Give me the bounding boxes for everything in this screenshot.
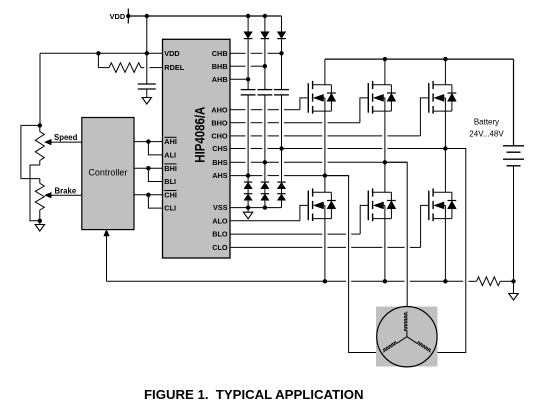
bootstrap diode DB (VDD rail down) (264, 16, 266, 32)
clamp diode pair C (VSS to CHS) (277, 181, 285, 183)
wire RDEL resistor to RDEL pin (crossover gap at cap drop) (141, 67, 144, 69)
wire phase node C (HS source to LS drain) (444, 111, 446, 192)
wire BHB pin to cap B column (230, 65, 246, 67)
junction VDD pin / RDEL resistor node (96, 51, 100, 55)
wire current-sense feedback to controller (106, 234, 108, 282)
wire phase B to motor (385, 162, 407, 311)
controller box (82, 118, 134, 230)
svg-text:BHO: BHO (211, 118, 228, 127)
junction CHS at bootstrap column (279, 146, 283, 150)
bootstrap capacitor CC (274, 89, 289, 91)
svg-text:AHB: AHB (212, 75, 228, 84)
wire phase node B (HS source to LS drain) (384, 111, 386, 192)
svg-text:CHS: CHS (212, 144, 228, 153)
svg-text:VDD: VDD (164, 49, 179, 58)
wire BLO gate line (230, 233, 322, 235)
junction VDD rail to diode D2 column (263, 14, 267, 18)
svg-text:BLO: BLO (212, 230, 228, 239)
wire diode DB to bootstrap cap CB (264, 39, 266, 90)
ground at VSS (247, 208, 249, 213)
wire controller output to AHI (134, 141, 163, 143)
wire B low-side source to ground bus (384, 219, 386, 282)
svg-text:Controller: Controller (88, 168, 127, 178)
wire battery negative lead (513, 166, 515, 281)
svg-text:VDD: VDD (110, 12, 126, 21)
wire CHB pin to cap C column (230, 52, 246, 54)
junction VDD rail to diode D1 column (246, 14, 250, 18)
svg-text:CLO: CLO (212, 243, 228, 252)
wire BHS node down to clamp diodes (264, 162, 266, 182)
wire VDD top rail (128, 15, 281, 17)
wire AHO gate line (230, 109, 246, 111)
junction CHI/CLI tie (146, 193, 150, 197)
wire CLO gate line (230, 246, 322, 248)
junction AHB (246, 77, 250, 81)
motor M1 circle (377, 307, 437, 367)
junction BHS at phase B (383, 160, 387, 164)
junction AHS at bootstrap column (246, 173, 250, 177)
wire AHS node down to clamp diodes (247, 176, 249, 183)
bootstrap diode DC (VDD rail down) (281, 16, 283, 32)
svg-text:ALI: ALI (164, 151, 176, 160)
transistor Q6 (phase C low-side) (428, 191, 430, 221)
junction VSS clamp A (246, 205, 250, 209)
svg-text:CHB: CHB (212, 49, 228, 58)
junction AHI/ALI tie (146, 139, 150, 143)
svg-text:CHO: CHO (211, 132, 228, 141)
svg-text:HIP4086/A: HIP4086/A (191, 107, 207, 163)
junction pots bottom (38, 219, 42, 223)
transistor Q4 (phase A low-side) (307, 191, 309, 221)
svg-text:AHO: AHO (211, 105, 228, 114)
junction B low-side source at bus (383, 279, 387, 283)
wire VSS line (230, 207, 282, 209)
svg-text:BLI: BLI (164, 177, 176, 186)
wire B high-side drain to rail (384, 59, 386, 85)
junction VSS clamp B (263, 205, 267, 209)
wire diode DC to bootstrap cap CC (281, 39, 283, 90)
wire C low-side source to ground bus (444, 219, 446, 282)
wire A high-side drain to rail (324, 59, 326, 85)
wire controller output to CHI (134, 194, 163, 196)
junction speed pot top (38, 123, 42, 127)
svg-text:VSS: VSS (213, 203, 228, 212)
svg-text:RDEL: RDEL (164, 63, 184, 72)
brake wiper arrow (45, 192, 52, 198)
wire AHS line to phase A and motor (230, 175, 262, 177)
transistor Q3 (phase C high-side) (428, 83, 430, 113)
motor shading square (376, 307, 438, 367)
wire speed top to brake top bracket (21, 125, 40, 178)
wire diode DA to bootstrap cap CA (247, 39, 249, 90)
ground below VDD bypass cap (142, 98, 151, 105)
wire battery positive lead (513, 59, 515, 146)
feedback arrowhead into controller (104, 230, 110, 236)
battery BT1 (503, 145, 524, 147)
motor winding lower-right (phase C) (407, 337, 417, 344)
wire VDD feed to pots (39, 53, 41, 125)
junction VDD pin / bypass cap drop (145, 51, 149, 55)
motor winding up (phase B) (406, 331, 408, 337)
wire RDEL node drop (97, 53, 99, 67)
junction BHI/BLI tie (146, 166, 150, 170)
bootstrap diode DA (VDD rail down) (247, 16, 249, 32)
junction drain rail phase B (383, 57, 387, 61)
svg-text:Speed: Speed (54, 133, 78, 142)
wire high-side drain rail (325, 58, 514, 60)
wire phase C to motor (431, 149, 466, 353)
wire ALO gate line (230, 220, 300, 222)
svg-text:CLI: CLI (164, 204, 176, 213)
wire CHS node down to clamp diodes (281, 149, 283, 183)
capacitor VDD bypass (138, 83, 156, 85)
transistor Q2 (phase B high-side) (367, 83, 369, 113)
bootstrap capacitor CB (258, 89, 273, 91)
svg-text:ALO: ALO (212, 216, 228, 225)
wire CHS line to phase C and motor (230, 148, 246, 150)
wire bootstrap cap CA bottom to AHS node (247, 95, 249, 176)
svg-text:BHS: BHS (212, 158, 228, 167)
wire phase A to motor (325, 176, 383, 353)
svg-text:AHI: AHI (164, 137, 177, 146)
wire bootstrap cap CC bottom to CHS node (281, 95, 283, 149)
svg-text:Brake: Brake (55, 186, 77, 195)
junction VDD rail to VDD-pin drop (145, 14, 149, 18)
svg-text:AHS: AHS (212, 171, 228, 180)
svg-text:FIGURE 1. TYPICAL APPLICATION: FIGURE 1. TYPICAL APPLICATION (144, 387, 364, 402)
svg-text:Battery: Battery (474, 118, 499, 127)
speed wiper arrow (45, 139, 52, 145)
junction CHB (279, 51, 283, 55)
junction CHS at phase C (443, 146, 447, 150)
wire BHI tie down to BLI (148, 168, 162, 181)
svg-text:BHB: BHB (212, 62, 228, 71)
resistor current sense (477, 277, 501, 286)
wire speed wiper to controller (50, 141, 82, 143)
ground at battery negative (513, 281, 515, 293)
bootstrap capacitor CA (241, 89, 256, 91)
ground below pots (39, 221, 41, 225)
wire C high-side drain to rail (444, 59, 446, 85)
wire CHO gate line (230, 135, 246, 137)
wire speed pot bottom bypass (30, 165, 40, 221)
IC U1 HIP4086/A body (163, 39, 231, 258)
svg-text:BHI: BHI (164, 164, 177, 173)
junction BHS at bootstrap column (263, 160, 267, 164)
transistor Q5 (phase B low-side) (367, 191, 369, 221)
junction drain rail phase C (443, 57, 447, 61)
potentiometer Brake (39, 179, 41, 184)
junction BHB (263, 64, 267, 68)
wire AHI tie down to ALI (148, 142, 162, 155)
potentiometer Speed (39, 125, 41, 131)
wire A low-side source to ground bus (324, 219, 326, 282)
wire BHO gate line (230, 122, 246, 124)
wire BHS line to phase B and motor (230, 161, 246, 163)
junction AHS at phase A (323, 173, 327, 177)
resistor RDEL (98, 67, 109, 69)
wire phase node A (HS source to LS drain) (324, 111, 326, 192)
wire ground bus (107, 280, 347, 282)
junction A low-side source at bus (323, 279, 327, 283)
junction battery negative at bus (511, 279, 515, 283)
clamp diode pair B (VSS to BHS) (261, 181, 269, 183)
wire brake wiper to controller (50, 194, 82, 196)
transistor Q1 (phase A high-side) (307, 83, 309, 113)
junction VDD tick (126, 14, 130, 18)
junction C low-side source at bus (443, 279, 447, 283)
wire CHI tie down to CLI (148, 195, 162, 208)
wire VDD pin line (40, 52, 163, 54)
clamp diode pair A (VSS to AHS) (244, 181, 252, 183)
VDD supply terminal tick (127, 9, 129, 24)
wire AHB pin to cap A column (230, 78, 248, 80)
svg-text:CHI: CHI (164, 190, 177, 199)
svg-text:24V...48V: 24V...48V (469, 130, 504, 139)
wire VDD drop to VDD pin and bypass cap (146, 16, 148, 84)
wire bootstrap cap CB bottom to BHS node (264, 95, 266, 162)
motor winding lower-left (phase A) (397, 337, 407, 344)
wire controller output to BHI (134, 167, 163, 169)
